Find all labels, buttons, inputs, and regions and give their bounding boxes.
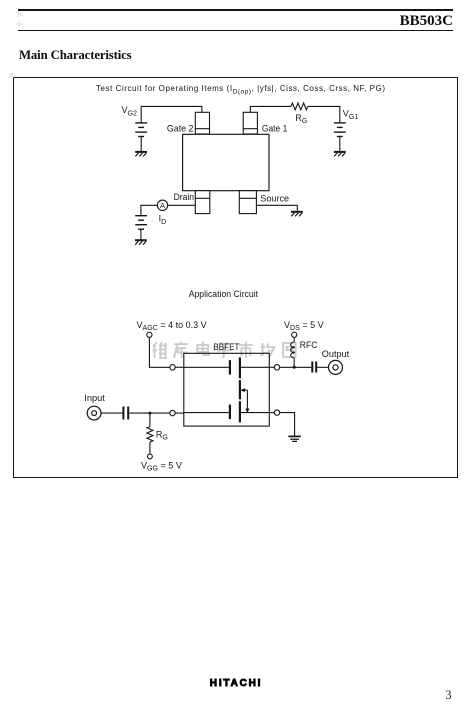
svg-text:Source: Source [260, 193, 289, 204]
label Output [322, 349, 350, 359]
wire VG2 battery to ground [140, 137, 142, 152]
label VG2 [122, 105, 138, 117]
wire inside top-right [241, 366, 269, 368]
port circle bottom-left [170, 410, 175, 415]
battery ID [135, 216, 147, 230]
pin Gate 2 [195, 112, 209, 134]
label Source [260, 193, 289, 204]
ammeter A [157, 200, 167, 210]
wire inside bottom-left [184, 412, 229, 414]
ground VG2 [135, 152, 147, 157]
svg-text:Test Circuit for Operating Ite: Test Circuit for Operating Items (ID(op)… [96, 84, 385, 96]
battery VG2 [135, 123, 147, 137]
svg-text:Gate 2: Gate 2 [167, 124, 194, 135]
wire RG to VGG terminal [149, 442, 151, 454]
wire ammeter to ID battery [141, 205, 157, 215]
port circle top-left [170, 365, 175, 370]
wire inside bottom-right [241, 412, 269, 414]
wire cap to gate2 port [129, 412, 170, 414]
wire ammeter to Drain pin [168, 204, 196, 206]
wire Gate1 pin to RG [250, 106, 291, 112]
svg-text:BBFET: BBFET [213, 342, 240, 352]
battery VG1 [334, 123, 346, 137]
label ID [159, 214, 167, 226]
wire input connector to cap [101, 412, 122, 414]
pin Gate 1 [243, 112, 257, 134]
terminal VGG [148, 454, 153, 459]
svg-text:VG2: VG2 [122, 105, 138, 117]
wire VDS to inductor [293, 337, 295, 342]
port circle bottom-right [274, 410, 279, 415]
junction dot input line [148, 412, 151, 415]
ground (app) [288, 436, 300, 441]
svg-text:Input: Input [84, 393, 105, 403]
substrate arrow [241, 388, 249, 412]
wire VAGC to gate1 port [149, 337, 169, 367]
label RFC [300, 340, 318, 350]
wire VG1 battery to ground [339, 137, 341, 152]
wire port to output cap [280, 366, 312, 368]
svg-text:Gate 1: Gate 1 [262, 124, 287, 135]
outer frame [13, 77, 458, 478]
label Gate 1 [262, 124, 287, 135]
pin Source [239, 191, 256, 214]
svg-text:Output: Output [322, 349, 350, 359]
label VAGC [137, 320, 207, 332]
ground VG1 [334, 152, 346, 157]
header rule (bottom) [18, 30, 453, 31]
svg-text:ID: ID [159, 214, 167, 226]
resistor RG (test) [291, 103, 308, 110]
label BBFET [213, 342, 240, 352]
label RG (test) [295, 113, 307, 125]
junction dot output line [293, 366, 296, 369]
BBFET box [184, 353, 269, 426]
svg-text:Application Circuit: Application Circuit [189, 289, 259, 299]
watermark [153, 342, 296, 359]
label VG1 [343, 109, 359, 121]
label VDS [284, 320, 324, 332]
page number [443, 688, 455, 703]
channel bar middle [239, 380, 241, 399]
application circuit title [189, 289, 259, 299]
label Drain [174, 192, 194, 203]
svg-text:RG: RG [295, 113, 307, 125]
inductor crossover knots [292, 346, 294, 354]
svg-text:VG1: VG1 [343, 109, 359, 121]
resistor RG (app) [147, 427, 153, 443]
ground ID [135, 240, 147, 245]
gate plate bottom [229, 405, 231, 420]
wire inductor to output line [293, 358, 295, 367]
wire port to box (bottom-left) [175, 412, 184, 414]
part number BB503C [253, 13, 453, 30]
label Input [84, 393, 105, 403]
test circuit title [96, 84, 385, 96]
svg-text:VGG = 5 V: VGG = 5 V [141, 461, 182, 473]
label RG (app) [156, 429, 168, 441]
svg-text:A: A [160, 201, 165, 210]
wire port to box (top-left) [175, 366, 184, 368]
wire cap to output connector [317, 366, 328, 368]
section heading [19, 48, 132, 63]
svg-text:Drain: Drain [174, 192, 194, 203]
wire inside top-left [184, 366, 229, 368]
label VGG [141, 461, 182, 473]
gate plate top [229, 360, 231, 375]
terminal VAGC [147, 332, 152, 337]
pin Drain [195, 191, 210, 214]
wire ID battery to ground [140, 229, 142, 239]
channel bar top [239, 357, 241, 378]
wire RG to VG1 battery [308, 106, 340, 123]
svg-text:RG: RG [156, 429, 168, 441]
port circle top-right [274, 365, 279, 370]
terminal VDS [292, 332, 297, 337]
channel bar bottom [239, 401, 241, 422]
output connector [329, 360, 343, 374]
input connector [87, 406, 101, 420]
inductor RFC [291, 342, 295, 358]
wire source port to ground [280, 413, 295, 437]
label Gate 2 [167, 124, 194, 135]
svg-text:VDS = 5 V: VDS = 5 V [284, 320, 324, 332]
capacitor output [312, 362, 316, 373]
capacitor input [123, 407, 128, 420]
svg-text:RFC: RFC [300, 340, 318, 350]
faint page-edge watermark remnants [9, 11, 23, 78]
wire Source pin to ground [256, 205, 297, 210]
FET package U1 [183, 134, 269, 190]
wire box to port top-right [269, 366, 274, 368]
wire junction to RG [149, 413, 151, 427]
ground Source [291, 212, 303, 217]
wire box to port bottom-right [269, 412, 274, 414]
wire VG2 to Gate2 pin [141, 106, 202, 123]
svg-text:VAGC = 4 to 0.3 V: VAGC = 4 to 0.3 V [137, 320, 207, 332]
Hitachi logo [210, 678, 280, 689]
header rule (top) [18, 9, 453, 10]
